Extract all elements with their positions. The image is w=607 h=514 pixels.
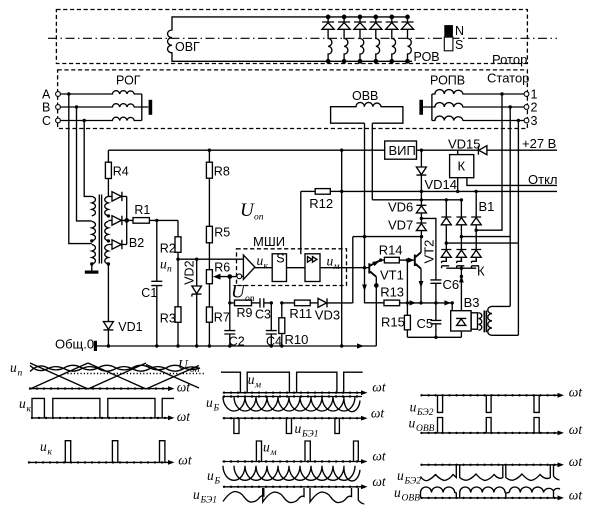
svg-text:S: S (455, 38, 463, 52)
svg-text:U: U (240, 200, 255, 221)
wire +27V (417, 149, 558, 151)
rotor top bus (305, 16, 408, 18)
node VD6-VD7 tap (420, 217, 423, 220)
label omega-t L2 (177, 409, 192, 424)
driver box (305, 254, 320, 282)
ROPV common wire (423, 94, 432, 121)
diode VD6 (416, 205, 426, 223)
node primary w3 bottom (90, 262, 93, 265)
svg-text:К: К (477, 264, 485, 279)
node phase2 tap (509, 105, 512, 108)
resistor R14 (381, 257, 415, 263)
svg-text:+27 В: +27 В (522, 136, 556, 151)
u_BE1 wave M2 (223, 488, 364, 504)
svg-text:В3: В3 (464, 295, 480, 310)
rectifier diode V3 of B2 (108, 240, 126, 249)
svg-text:R2: R2 (160, 242, 176, 256)
svg-text:БЭ2: БЭ2 (404, 477, 422, 487)
wire bridge top bus (372, 199, 461, 201)
svg-text:R4: R4 (113, 165, 129, 179)
svg-text:к: к (48, 448, 53, 458)
wire R1 to R2 (177, 220, 179, 236)
wire contact bus (446, 267, 476, 269)
svg-text:ОВГ: ОВГ (175, 40, 200, 54)
u_B scallops M1 set B (234, 397, 360, 412)
svg-text:C3: C3 (255, 308, 271, 322)
ROG neutral wire (142, 94, 149, 121)
bridge B1 column 3 (471, 191, 481, 261)
waveform group G7 axis 1 (421, 393, 565, 398)
svg-text:u: u (193, 487, 200, 502)
node VD6 top (420, 198, 423, 201)
rectifier diode V1 of B2 (108, 192, 126, 201)
waveform group G7 axis 2 (421, 431, 565, 436)
svg-text:C5: C5 (417, 316, 434, 331)
node contact bus (460, 267, 463, 270)
svg-text:оп: оп (190, 365, 200, 375)
diode VD15 (478, 146, 487, 155)
svg-text:R3: R3 (160, 312, 176, 326)
node U_op (228, 301, 231, 304)
label VT2 (rotated) (422, 240, 437, 264)
resistor R11 (282, 300, 318, 306)
svg-text:C1: C1 (141, 286, 157, 300)
svg-text:БЭ2: БЭ2 (416, 408, 434, 418)
comparator input port circle (237, 274, 242, 279)
resistor R10 (279, 303, 285, 346)
svg-text:оп: оп (254, 213, 264, 223)
svg-text:РОВ: РОВ (414, 50, 440, 64)
capacitor C4 (266, 303, 277, 346)
ROV diode+coil branch 1 (322, 15, 334, 63)
label u_OVV G8 (394, 485, 420, 504)
svg-text:u: u (257, 253, 264, 268)
bridge B1 column 1 (441, 200, 451, 261)
label omega-t M2a (372, 448, 387, 463)
rectifier diode V2 of B2 (108, 216, 126, 225)
label u_m inside MShI (327, 254, 340, 273)
node rail R8 (208, 149, 211, 152)
svg-text:u: u (10, 360, 17, 375)
svg-text:ωt: ωt (371, 406, 386, 421)
node C1 on bus (155, 344, 158, 347)
node C4 on bus (270, 344, 273, 347)
wire pot tap vertical (228, 275, 231, 331)
B3 transformer core (484, 311, 486, 333)
label u_BE2 G8 (397, 468, 421, 487)
resistor R1 (127, 218, 178, 224)
svg-text:Б: Б (214, 477, 221, 487)
svg-text:ВИП: ВИП (389, 143, 416, 158)
u_BE2 wave G8 (421, 465, 560, 481)
wire line 190.8 (342, 190, 557, 192)
svg-text:C6: C6 (443, 277, 460, 292)
u_BE1 pulses M1 (234, 418, 340, 433)
node secondary w2 bottom (107, 239, 110, 242)
svg-text:1: 1 (531, 88, 538, 102)
box B3 (451, 311, 471, 331)
ROPV phase 1 coil (432, 90, 524, 94)
label omega-t M2b (372, 474, 387, 489)
relay contact col3 (472, 257, 480, 268)
main rail wire (108, 150, 384, 162)
u_B scallops M2 set A (223, 466, 355, 481)
wire phase C drop (84, 121, 92, 197)
transistor VT1 (369, 260, 380, 277)
waveform group G8 axis 2 (421, 496, 565, 501)
wire S to driver box (287, 267, 306, 269)
waveform group M1 axis um (223, 390, 368, 395)
node col1 tap (445, 241, 448, 244)
winding OVV (331, 102, 403, 123)
svg-text:R15: R15 (381, 315, 405, 330)
wire VT1 emitter down (375, 277, 378, 346)
svg-text:R11: R11 (289, 306, 312, 321)
svg-text:ωt: ωt (569, 422, 584, 437)
svg-text:к: к (27, 405, 32, 415)
u_m square wave (221, 372, 363, 393)
stator dashed box (58, 70, 528, 129)
ROV diode+coil branch 6 (401, 15, 413, 63)
node VD7 bottom (420, 235, 423, 238)
label U_op waveform (178, 357, 200, 375)
B3 diode symbol (456, 318, 466, 325)
relay box K (450, 150, 557, 191)
resistor R8 (206, 150, 212, 226)
rotor dashed box (56, 10, 527, 64)
waveform group M1 axis uB (223, 416, 368, 421)
label U_op upper (240, 200, 264, 223)
svg-text:В: В (42, 101, 50, 115)
svg-text:VD15: VD15 (448, 137, 481, 152)
terminal 1 (524, 88, 537, 102)
node R13 x407 (406, 301, 409, 304)
svg-text:R9: R9 (237, 306, 253, 320)
svg-text:В2: В2 (129, 236, 144, 250)
wire secondary bottom (492, 334, 518, 336)
u_B scallops M2 set B (234, 466, 360, 481)
label u_BE1 M1 (295, 421, 319, 440)
label u_B M1 (206, 395, 220, 414)
ROPV core bar (419, 100, 423, 115)
svg-text:ОВВ: ОВВ (402, 494, 421, 504)
terminal 2 (524, 101, 537, 115)
svg-text:VD7: VD7 (388, 218, 413, 233)
node VD1 on bus (107, 344, 110, 347)
wire u_p line (178, 258, 243, 260)
wire OVV terminal left (364, 123, 366, 236)
svg-text:ωt: ωt (372, 379, 387, 394)
resistor R5 (206, 226, 212, 269)
wire OVV terminal right (371, 123, 373, 200)
svg-text:U: U (178, 357, 189, 372)
svg-text:u: u (160, 257, 167, 272)
node phase3 tap (517, 119, 520, 122)
svg-text:К: К (458, 159, 466, 174)
u_k pulses (65, 441, 165, 463)
u_OVV wave G8 (421, 487, 561, 498)
wire phase3 vertical (446, 121, 518, 336)
node R13 x436 (434, 301, 437, 304)
waveform group L1 axis (30, 386, 175, 391)
waveform group L3 axis (29, 460, 175, 465)
svg-text:ωt: ωt (569, 454, 584, 469)
node R13 x421 (419, 301, 422, 304)
terminal B (42, 101, 60, 115)
waveform group G8 axis 1 (421, 462, 565, 467)
node bridge col1 top (445, 198, 448, 201)
svg-text:R8: R8 (214, 165, 230, 179)
VT1 collector arrow (372, 259, 380, 267)
node R14 R15 (406, 258, 409, 261)
terminal A (42, 88, 60, 102)
B3 transformer primary (478, 313, 481, 330)
driver box symbol (308, 257, 317, 263)
capacitor C6 (430, 280, 441, 303)
u_p sawtooth (30, 363, 199, 389)
wire tap to C6 (421, 218, 436, 280)
node col3 tap (475, 229, 478, 232)
svg-text:u: u (40, 439, 47, 454)
wire emitter drop with arrow (362, 237, 367, 303)
node R13 B3 (451, 301, 454, 304)
svg-text:3: 3 (531, 114, 538, 128)
node C3 out (270, 301, 273, 304)
label omega-t L1 (177, 380, 192, 395)
svg-text:БЭ1: БЭ1 (301, 430, 318, 440)
svg-text:ωt: ωt (372, 474, 387, 489)
label omega-t G8b (569, 488, 584, 503)
R13 direction arrow 1 (410, 300, 417, 305)
wire VT2 emitter down with arrow (419, 269, 424, 304)
svg-text:R6: R6 (214, 261, 230, 275)
u_OVV pulses G7 (438, 418, 540, 433)
svg-text:ωt: ωt (178, 453, 193, 468)
common ground bus (97, 345, 376, 347)
node R10 on bus (280, 344, 283, 347)
svg-text:u: u (394, 485, 401, 500)
node K pin on line (456, 190, 459, 193)
svg-text:u: u (248, 372, 255, 387)
svg-text:ωt: ωt (372, 448, 387, 463)
svg-text:u: u (263, 440, 270, 455)
ROG phase C coil (60, 117, 141, 120)
svg-text:м: м (333, 262, 340, 272)
wire secondary top (492, 305, 510, 307)
svg-text:u: u (206, 395, 213, 410)
wire phase2 vertical (461, 107, 510, 306)
label u_k inside MShI (257, 253, 269, 272)
node C junction (83, 119, 86, 122)
svg-text:VD3: VD3 (315, 308, 340, 323)
u_B scallops M1 set A (223, 397, 355, 412)
ROG core bar (149, 100, 153, 115)
node VD2 on bus (195, 344, 198, 347)
svg-text:ωt: ωt (569, 488, 584, 503)
magnet N pole (filled) (444, 25, 453, 37)
wire VT2 collector up (420, 237, 422, 253)
svg-text:п: п (18, 369, 23, 379)
wire amp to S box (255, 267, 272, 269)
svg-text:u: u (19, 396, 26, 411)
svg-text:РОПВ: РОПВ (430, 74, 465, 88)
label omega-t G7a (569, 385, 584, 400)
ROV diode+coil branch 5 (386, 15, 398, 63)
transformer B2 primary windings (92, 196, 96, 264)
svg-text:U: U (231, 282, 246, 303)
svg-text:R1: R1 (134, 203, 150, 217)
node C5 bottom (434, 336, 437, 339)
label omega-t M1b (371, 406, 386, 421)
bridge B1 column 2 (456, 200, 466, 261)
transistor VT2 (415, 252, 421, 268)
wire R15 drop (406, 260, 408, 315)
svg-text:Ротор: Ротор (492, 52, 527, 67)
R6 wiper arrow (213, 274, 236, 280)
node phase1 tap (500, 92, 503, 95)
resistor R12 (301, 189, 342, 195)
capacitor C1 (151, 281, 162, 346)
svg-text:R10: R10 (285, 332, 309, 347)
common bus terminal tick (94, 341, 97, 351)
waveform group L2 axis (32, 416, 175, 421)
svg-text:БЭ1: БЭ1 (200, 496, 217, 506)
transformer B2 secondary windings (105, 196, 109, 264)
label u_m M2 (263, 440, 277, 459)
magnet S pole (open) (444, 37, 453, 51)
R14 arrow to VT2 (408, 258, 415, 263)
svg-text:u: u (295, 421, 302, 436)
relay contact col2 (457, 257, 465, 268)
svg-text:R7: R7 (214, 311, 230, 325)
zener VD2 (192, 259, 202, 346)
svg-text:R5: R5 (214, 226, 230, 240)
node col2 tap (460, 235, 463, 238)
svg-text:u: u (410, 400, 417, 415)
resistor R3 (175, 259, 181, 346)
capacitor C5 (430, 303, 441, 337)
diode VD14 (416, 150, 426, 205)
label u_BE2 G7 (410, 400, 434, 419)
diode VD7 (416, 223, 426, 237)
wire VD3 riser (352, 237, 354, 303)
svg-text:Общ.0: Общ.0 (55, 337, 94, 352)
bus arrow (357, 343, 364, 348)
node C2 on bus (228, 344, 231, 347)
node R7 on bus (208, 344, 211, 347)
rotor bottom bus (305, 60, 412, 62)
ground of B2 primary (85, 264, 99, 274)
label u_k waveform L3 (40, 439, 53, 458)
B3 transformer secondary (488, 306, 492, 335)
wire vertical 341.7 (341, 150, 343, 346)
wire base feed line (353, 236, 422, 238)
svg-text:VD1: VD1 (118, 320, 142, 334)
node u_m base (363, 266, 366, 269)
wire B3 input drop (451, 303, 453, 311)
winding OVG coil (168, 17, 306, 61)
label omega-t G7b (569, 422, 584, 437)
transformer B2 core (99, 195, 101, 264)
node u_p (176, 258, 179, 261)
svg-text:C4: C4 (266, 335, 282, 349)
svg-text:Б: Б (213, 404, 220, 414)
resistor R7 (206, 307, 212, 346)
svg-text:МШИ: МШИ (253, 234, 285, 249)
label u_B M2 (207, 468, 221, 487)
potentiometer R6 (206, 270, 212, 307)
svg-text:А: А (42, 88, 51, 102)
resistor R2 (175, 237, 181, 259)
resistor R9 (230, 300, 260, 306)
ROG phase B coil (60, 104, 141, 107)
node VT1 collector (379, 258, 382, 261)
node VD2 top (195, 258, 198, 261)
wire phase1 vertical (476, 94, 502, 230)
svg-text:ωt: ωt (569, 385, 584, 400)
svg-text:п: п (167, 265, 172, 275)
ROPV phase 3 coil (432, 116, 524, 120)
u_p ripple curves (30, 365, 200, 371)
label u_p (160, 257, 172, 275)
u_k PWM wave (32, 398, 174, 418)
node VD14 top (420, 149, 423, 152)
node R12 junction (340, 190, 343, 193)
resistor R4 (105, 162, 111, 196)
svg-text:2: 2 (531, 101, 538, 115)
ROG phase A coil (60, 91, 141, 94)
svg-text:u: u (409, 416, 416, 431)
wire u_m output (320, 267, 369, 269)
resistor R15 (404, 315, 410, 337)
svg-text:к: к (264, 262, 269, 272)
u_BE2 pulses G7 (438, 395, 540, 412)
svg-text:м: м (270, 448, 277, 458)
svg-text:u: u (327, 254, 334, 269)
svg-text:u: u (207, 468, 214, 483)
node R1 output (155, 219, 158, 222)
ROV diode+coil branch 4 (370, 15, 382, 63)
waveform group M2 axis um (223, 459, 368, 464)
label u_m M1 (248, 372, 261, 391)
node R10 top (280, 301, 283, 304)
resistor R13 (365, 300, 452, 306)
svg-text:Статор: Статор (487, 71, 529, 86)
svg-text:РОГ: РОГ (116, 74, 141, 88)
label VD2 (rotated) (182, 260, 196, 284)
node 341.7 on bus (340, 344, 343, 347)
label U_op lower (231, 282, 255, 305)
svg-text:VD14: VD14 (425, 177, 458, 192)
svg-text:В1: В1 (479, 199, 495, 214)
u_B cusp line M1 (223, 396, 362, 398)
wire secondary common down (107, 264, 109, 322)
bottom right bus (407, 331, 461, 337)
diode VD3 (318, 298, 353, 307)
wire phase B drop (77, 107, 92, 221)
node secondary w3 bottom (107, 262, 110, 265)
label u_k waveform L2 (19, 396, 32, 415)
ROV diode+coil branch 3 (354, 15, 366, 63)
node VD14 bottom (420, 190, 423, 193)
waveform group M2 axis uB (223, 484, 368, 489)
MShI dashed box (237, 249, 347, 286)
wire R12 drop to driver (300, 191, 302, 254)
node rail takeoff (340, 149, 343, 152)
node base feed left (363, 235, 366, 238)
R13 direction arrow 2 (444, 300, 451, 305)
relay contact col1 (442, 257, 450, 268)
